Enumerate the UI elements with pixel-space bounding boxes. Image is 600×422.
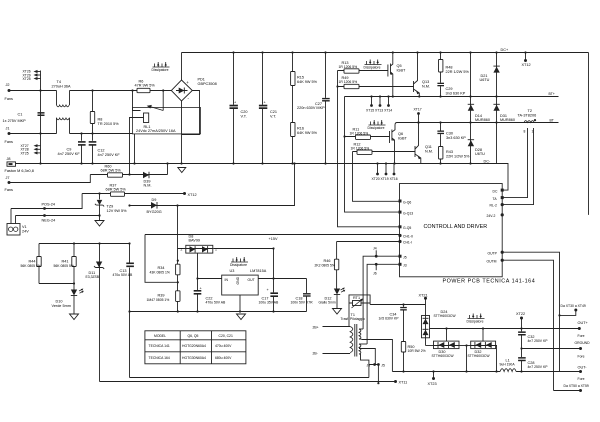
table model/options	[145, 331, 246, 364]
svg-text:56K 0805 5%: 56K 0805 5%	[54, 264, 74, 268]
svg-text:U3: U3	[230, 269, 235, 273]
terminal XT19	[385, 164, 387, 174]
wire upper secondary top	[359, 328, 363, 330]
pin OUTP	[501, 251, 504, 254]
wire C22 column	[197, 253, 199, 311]
svg-text:Fans: Fans	[5, 188, 14, 192]
svg-text:POWER PCB TECNICA 141-164: POWER PCB TECNICA 141-164	[443, 278, 536, 284]
svg-text:1n5 630V KP: 1n5 630V KP	[379, 317, 400, 321]
wire XT pins vertical	[40, 134, 42, 164]
inductor L1	[500, 369, 516, 372]
wire BT+ left leg down to IC	[345, 97, 400, 213]
svg-text:1: 1	[215, 247, 217, 251]
capacitor C29	[437, 83, 444, 84]
wire lower secondary top to J segment	[359, 343, 367, 345]
wire D32 centre to OUT+	[482, 329, 484, 342]
ground mid line	[520, 347, 522, 349]
+15V rail	[214, 248, 274, 250]
T2 secondary wires to IC	[502, 128, 527, 198]
wire line A from monitor column	[130, 377, 369, 379]
svg-text:E3,3ZSB: E3,3ZSB	[86, 275, 100, 279]
svg-text:BYG20G: BYG20G	[147, 210, 162, 214]
terminal XT20	[377, 164, 379, 174]
svg-text:47R 9W 5%: 47R 9W 5%	[135, 84, 156, 88]
svg-text:Dissipatore: Dissipatore	[230, 263, 247, 267]
node J5	[377, 363, 380, 366]
wire T4 to relay box	[70, 133, 133, 135]
svg-text:12V 9W 5%: 12V 9W 5%	[107, 209, 128, 213]
wire bridge bottom to PE rail	[181, 101, 183, 164]
wire bridge right to J1 line	[182, 91, 200, 135]
T1 core	[355, 324, 357, 357]
svg-text:R16: R16	[297, 127, 304, 131]
heatsink output diodes	[468, 314, 485, 319]
svg-text:MUR860: MUR860	[475, 118, 490, 122]
capacitor C22	[194, 290, 202, 292]
relay RL1 outline box	[133, 108, 201, 134]
wire CH1-II line	[145, 234, 400, 236]
IC U-CONTROL box	[400, 184, 503, 277]
capacitor C30	[440, 123, 442, 131]
svg-text:24Vdc 27mA/250V 16A: 24Vdc 27mA/250V 16A	[136, 129, 176, 133]
wire J1 to T4	[9, 133, 57, 135]
svg-text:XT22: XT22	[516, 312, 525, 316]
transistor Q5 IGBT	[387, 65, 389, 77]
capacitor C34	[403, 305, 405, 342]
svg-text:XT23: XT23	[428, 382, 437, 386]
svg-text:10R 5W 2%: 10R 5W 2%	[408, 349, 426, 353]
svg-text:OUT-: OUT-	[578, 366, 588, 370]
svg-text:C30: C30	[446, 132, 453, 136]
pin OUTM	[501, 259, 504, 262]
svg-text:OUT: OUT	[248, 278, 255, 282]
svg-text:GBPC3508: GBPC3508	[198, 82, 217, 86]
svg-text:R8: R8	[98, 118, 103, 122]
capacitor C12	[92, 134, 94, 164]
node J4	[375, 250, 377, 256]
svg-text:56K 0805 5%: 56K 0805 5%	[21, 264, 41, 268]
ground rail under U3	[130, 311, 307, 313]
diode column x=496	[496, 53, 498, 164]
svg-text:OUTP: OUTP	[488, 251, 498, 255]
wire XT11 line	[100, 381, 396, 383]
svg-text:BT: BT	[550, 119, 554, 123]
svg-text:J2: J2	[6, 83, 10, 87]
dual diode D24	[422, 316, 430, 338]
svg-text:LM7815A: LM7815A	[250, 269, 267, 273]
svg-text:G-Q13: G-Q13	[403, 211, 413, 215]
terminal OUT+	[578, 327, 581, 330]
svg-text:STTH6003CW: STTH6003CW	[432, 354, 455, 358]
svg-text:4n7 250V KF: 4n7 250V KF	[58, 152, 81, 156]
terminal XT16	[393, 164, 395, 174]
svg-text:22R 1/2W 5%: 22R 1/2W 5%	[446, 70, 470, 74]
svg-text:CH1-I: CH1-I	[403, 241, 412, 245]
svg-text:N.M.: N.M.	[425, 150, 433, 154]
svg-text:Dissipatore: Dissipatore	[152, 68, 169, 72]
resistor R12	[353, 151, 416, 153]
capacitor C18	[306, 279, 308, 312]
wire D12 to ground	[336, 295, 338, 309]
svg-text:V1: V1	[22, 225, 27, 229]
PE ground triangle	[178, 168, 186, 173]
wire POS-24	[11, 194, 82, 209]
terminal OUT-	[579, 370, 582, 373]
relay coil RL1	[144, 113, 149, 123]
diode D9	[151, 202, 157, 209]
svg-text:TZ9: TZ9	[107, 205, 114, 209]
resistor R34	[176, 264, 180, 275]
wire between D30 D32	[459, 345, 471, 347]
diode D14	[468, 103, 474, 105]
svg-text:XT20 XT19 XT16: XT20 XT19 XT16	[372, 177, 398, 181]
divider column R34 R39	[177, 249, 179, 312]
svg-text:R15: R15	[297, 76, 304, 80]
wire DC+ rail right edge down to IC pin	[588, 53, 590, 215]
terminal XT23	[433, 372, 435, 378]
resistor R37	[111, 192, 125, 196]
wire J7 to R60 line	[9, 175, 90, 183]
wire OUTM routing	[502, 260, 553, 390]
svg-text:Q5: Q5	[397, 64, 402, 68]
svg-text:Q6, Q5: Q6, Q5	[188, 334, 199, 338]
terminal XT12	[525, 53, 527, 60]
svg-text:MUR860: MUR860	[500, 118, 515, 122]
svg-text:C20, C21: C20, C21	[219, 334, 233, 338]
terminal XT11	[394, 380, 397, 383]
svg-text:DC-: DC-	[484, 160, 491, 164]
svg-text:4n7 250V KF: 4n7 250V KF	[98, 153, 121, 157]
svg-text:470u 50V AB: 470u 50V AB	[113, 273, 134, 277]
svg-text:D10: D10	[56, 300, 63, 304]
wire OUTP routing	[502, 252, 559, 371]
svg-text:TECNICA 141: TECNICA 141	[149, 344, 170, 348]
svg-text:XT21: XT21	[419, 293, 428, 297]
capacitor C32	[520, 327, 522, 329]
svg-text:STTH6003CW: STTH6003CW	[434, 314, 457, 318]
svg-text:+: +	[186, 80, 189, 85]
svg-text:Fore: Fore	[578, 377, 585, 381]
wire U3 out	[258, 278, 306, 280]
svg-text:Dissipatore: Dissipatore	[467, 320, 484, 324]
resistor R15	[292, 53, 294, 164]
resistor R49	[338, 86, 414, 88]
resistor R44	[38, 244, 40, 284]
svg-text:BAV99: BAV99	[189, 239, 201, 243]
svg-text:G-Q5: G-Q5	[403, 226, 411, 230]
ground symbol U3	[237, 311, 239, 313]
terminal XT12	[183, 192, 186, 195]
svg-text:Q6: Q6	[398, 132, 403, 136]
svg-text:R34: R34	[158, 266, 165, 270]
pin J3	[399, 263, 402, 266]
svg-text:C21: C21	[270, 110, 277, 114]
dual diode D30	[434, 341, 460, 349]
wire lower secondary bottom	[359, 354, 369, 365]
svg-text:270uH 36A: 270uH 36A	[52, 84, 71, 88]
svg-text:XT17: XT17	[414, 108, 422, 112]
svg-text:68R 5W 5%: 68R 5W 5%	[101, 169, 122, 173]
diode D28	[468, 139, 474, 141]
resistor R39	[176, 291, 180, 302]
svg-text:Fans: Fans	[5, 140, 14, 144]
junction relay-coil column	[128, 173, 130, 175]
svg-text:2K2 0805 5%: 2K2 0805 5%	[315, 264, 335, 268]
BT- rail	[395, 123, 559, 126]
svg-text:Giallo 5mm: Giallo 5mm	[319, 301, 336, 305]
svg-text:IN: IN	[225, 278, 229, 282]
thermistor RT1 loop	[349, 295, 370, 305]
terminal XT15	[371, 97, 373, 105]
T1 secondary winding lower	[359, 344, 361, 354]
resistor R48	[440, 53, 442, 83]
svg-text:1: 1	[532, 130, 534, 134]
wire G riser R13/R49 to IC	[338, 71, 400, 227]
svg-text:2B+: 2B+	[313, 326, 319, 330]
wire J2 to T4	[9, 90, 57, 92]
transistor Q11	[414, 146, 416, 157]
svg-text:R39: R39	[158, 294, 165, 298]
bridge rectifier PD1	[171, 80, 192, 101]
resistor R13	[338, 70, 388, 72]
svg-text:TECNICA 164: TECNICA 164	[149, 356, 170, 360]
svg-text:R41: R41	[62, 260, 69, 264]
svg-text:XT12: XT12	[188, 193, 197, 197]
svg-text:C1: C1	[18, 113, 23, 117]
svg-text:J6: J6	[373, 272, 377, 276]
svg-text:TA-3T8206: TA-3T8206	[518, 113, 537, 117]
D9 line	[130, 164, 295, 206]
svg-text:U6TU: U6TU	[480, 78, 490, 82]
diode column x=470	[470, 53, 472, 164]
dual diode D32	[471, 341, 496, 349]
svg-text:XT25: XT25	[23, 77, 31, 81]
svg-text:J1: J1	[6, 127, 10, 131]
pin TA1	[501, 196, 504, 199]
capacitor C1	[38, 112, 45, 114]
svg-text:1R 1206 5%: 1R 1206 5%	[350, 131, 369, 135]
pin J5	[399, 255, 402, 258]
svg-text:Verde 5mm: Verde 5mm	[52, 304, 71, 308]
svg-text:4n7 250V KP: 4n7 250V KP	[528, 339, 549, 343]
svg-text:N.M.: N.M.	[144, 184, 152, 188]
svg-text:GND: GND	[236, 276, 240, 284]
J segment wires	[369, 365, 379, 384]
wire RT1 to T1	[348, 303, 350, 327]
svg-text:Da XT50 a XT59: Da XT50 a XT59	[564, 384, 589, 388]
pin G-Q6	[399, 200, 402, 203]
pin G-Q5	[399, 225, 402, 228]
svg-text:XT11: XT11	[399, 381, 408, 385]
wire PE rail continues	[182, 163, 498, 165]
capacitor C28	[521, 349, 523, 372]
resistor R46	[336, 242, 338, 289]
svg-text:Q13: Q13	[422, 80, 429, 84]
resistor R60	[90, 174, 167, 176]
wire T4 to R6	[70, 90, 138, 92]
svg-text:XT15 XT13 XT14: XT15 XT13 XT14	[366, 109, 392, 113]
capacitor C17	[273, 279, 275, 312]
terminal GROUND	[579, 347, 582, 350]
wire diode row to OUT- rail	[466, 346, 468, 372]
svg-text:64K 9W 5%: 64K 9W 5%	[297, 131, 318, 135]
heatsink Q5	[365, 60, 382, 65]
svg-text:8: 8	[524, 130, 526, 134]
zener TZ9	[82, 193, 184, 195]
svg-text:RT1: RT1	[353, 296, 360, 300]
pin 24V-2	[501, 213, 504, 216]
pin CH1-I	[398, 240, 401, 243]
svg-text:D9: D9	[152, 198, 157, 202]
svg-text:R43: R43	[446, 150, 453, 154]
terminal XT22	[520, 317, 523, 320]
svg-text:Dissipatore: Dissipatore	[364, 66, 381, 70]
svg-text:N.M.: N.M.	[422, 85, 430, 89]
svg-text:Fore: Fore	[578, 355, 585, 359]
battery V1 24V	[7, 224, 20, 236]
diode D31	[493, 103, 499, 105]
svg-text:U6TU: U6TU	[475, 152, 485, 156]
BT+ midpoint rail	[345, 96, 559, 98]
wire D10 to ground	[73, 296, 75, 315]
svg-text:24V: 24V	[22, 230, 29, 234]
terminal XT13	[379, 97, 381, 105]
wire D39 up to PE rail	[167, 164, 169, 175]
node J6	[373, 363, 376, 366]
svg-text:GROUND: GROUND	[575, 341, 591, 345]
svg-text:POS-24: POS-24	[42, 203, 56, 207]
wire +15V to out line	[273, 249, 275, 279]
transistor Q6 IGBT	[389, 131, 391, 143]
svg-text:4n7 250V KP: 4n7 250V KP	[528, 365, 549, 369]
svg-text:OUT+: OUT+	[578, 321, 589, 325]
svg-text:OUTM: OUTM	[487, 259, 497, 263]
svg-text:+15V: +15V	[269, 237, 278, 241]
svg-text:Faston M 6,3x0,8: Faston M 6,3x0,8	[5, 169, 34, 173]
wire CH1-I line	[337, 241, 400, 243]
zener D11	[99, 244, 101, 382]
wire D24 mid to OUT+ line	[430, 328, 580, 330]
wire D24 bottom to D30 row	[426, 345, 434, 347]
svg-text:V.T.: V.T.	[270, 115, 276, 119]
svg-text:Q11: Q11	[425, 145, 432, 149]
wire C34 line	[370, 304, 425, 306]
svg-text:680u 400V: 680u 400V	[215, 356, 232, 360]
svg-text:XT12: XT12	[522, 63, 531, 67]
wire U3 in	[198, 278, 222, 280]
pin G-Q13	[399, 211, 402, 214]
terminal XT21	[424, 297, 427, 300]
svg-text:DC+: DC+	[501, 48, 509, 52]
svg-text:22R 1/2W 5%: 22R 1/2W 5%	[446, 155, 470, 159]
capacitor C27	[325, 53, 327, 164]
svg-text:Trasf. Pilotaggio: Trasf. Pilotaggio	[341, 317, 365, 321]
resistor R50	[401, 342, 405, 353]
svg-text:R46: R46	[324, 259, 331, 263]
svg-text:HGTG20N60A4: HGTG20N60A4	[182, 344, 206, 348]
svg-text:V.T.: V.T.	[241, 115, 247, 119]
svg-text:1M47 0805 1%: 1M47 0805 1%	[147, 298, 170, 302]
wire DC- to IC pin DC-	[497, 164, 509, 191]
svg-text:HGTG30N60A4: HGTG30N60A4	[182, 356, 206, 360]
wire R12 riser to IC	[353, 152, 400, 202]
svg-text:68R 5W 5%: 68R 5W 5%	[106, 188, 127, 192]
svg-text:C29: C29	[446, 87, 453, 91]
transistor Q13	[413, 81, 415, 92]
svg-text:IGBT: IGBT	[397, 69, 407, 73]
svg-text:G-Q6: G-Q6	[403, 201, 411, 205]
resistor R8	[92, 91, 94, 134]
heatsink for bridge	[153, 62, 170, 67]
wire upper secondary bottom to output rail	[359, 339, 392, 371]
resistor R41	[73, 244, 75, 284]
svg-text:J8: J8	[7, 157, 11, 161]
LED D10	[73, 284, 75, 290]
svg-text:XT25: XT25	[21, 151, 29, 155]
svg-text:R44: R44	[29, 260, 36, 264]
capacitor C9	[81, 134, 83, 164]
resistor R43	[440, 134, 442, 163]
svg-text:220n 630V MKP: 220n 630V MKP	[297, 106, 325, 110]
svg-text:NEG-24: NEG-24	[42, 218, 56, 222]
bottom OUT- rail	[392, 371, 580, 373]
wire D9 node to D8	[176, 204, 178, 206]
heatsink Q6	[369, 120, 386, 125]
wire relay coil to divider	[145, 235, 178, 283]
svg-text:CONTROLL AND DRIVER: CONTROLL AND DRIVER	[424, 224, 488, 230]
terminal XT17	[417, 112, 420, 115]
diode D21	[493, 65, 499, 67]
svg-text:R48: R48	[446, 66, 453, 70]
svg-text:J5: J5	[403, 255, 407, 259]
svg-text:DC: DC	[493, 190, 498, 194]
DC+ rail	[182, 52, 589, 54]
terminal J1	[8, 132, 11, 135]
T1 secondary winding upper	[359, 329, 361, 339]
svg-text:J3: J3	[403, 264, 407, 268]
svg-text:Dissipatore: Dissipatore	[368, 126, 385, 130]
svg-text:Da XT30 a XT49: Da XT30 a XT49	[561, 304, 586, 308]
svg-text:3n3 630 KP: 3n3 630 KP	[446, 136, 466, 140]
resistor R11	[345, 136, 390, 138]
svg-text:J7: J7	[6, 176, 10, 180]
pin RL-2	[501, 203, 504, 206]
svg-text:100n 50V X7R: 100n 50V X7R	[291, 301, 314, 305]
capacitor C13	[129, 244, 131, 378]
LED D12	[334, 289, 340, 295]
svg-text:100u 35V AB: 100u 35V AB	[259, 301, 280, 305]
svg-text:3n3 630 KP: 3n3 630 KP	[446, 92, 466, 96]
svg-text:MODEL: MODEL	[154, 334, 166, 338]
pin DC-	[501, 189, 504, 192]
svg-text:TR 2010 5%: TR 2010 5%	[98, 122, 120, 126]
diode D39	[143, 172, 149, 179]
svg-text:64K 9W 5%: 64K 9W 5%	[297, 80, 318, 84]
chassis ground below TZ9	[99, 216, 101, 221]
svg-text:J5: J5	[381, 364, 385, 368]
wire faston to PE rail	[16, 163, 182, 165]
svg-text:BT+: BT+	[549, 92, 555, 96]
wire C1 branch	[40, 91, 42, 134]
wire NEG-24	[16, 215, 100, 217]
svg-text:43K 0805 1%: 43K 0805 1%	[150, 271, 170, 275]
svg-text:1R 1206 5%: 1R 1206 5%	[339, 80, 358, 84]
wire bridge top to DC+ rail	[181, 53, 183, 81]
svg-text:9uH 190A: 9uH 190A	[500, 363, 516, 367]
wire XT pins to line	[40, 71, 42, 91]
svg-text:1x 275V MKP: 1x 275V MKP	[3, 119, 27, 123]
wire D30 centre to OUT+	[446, 329, 448, 342]
